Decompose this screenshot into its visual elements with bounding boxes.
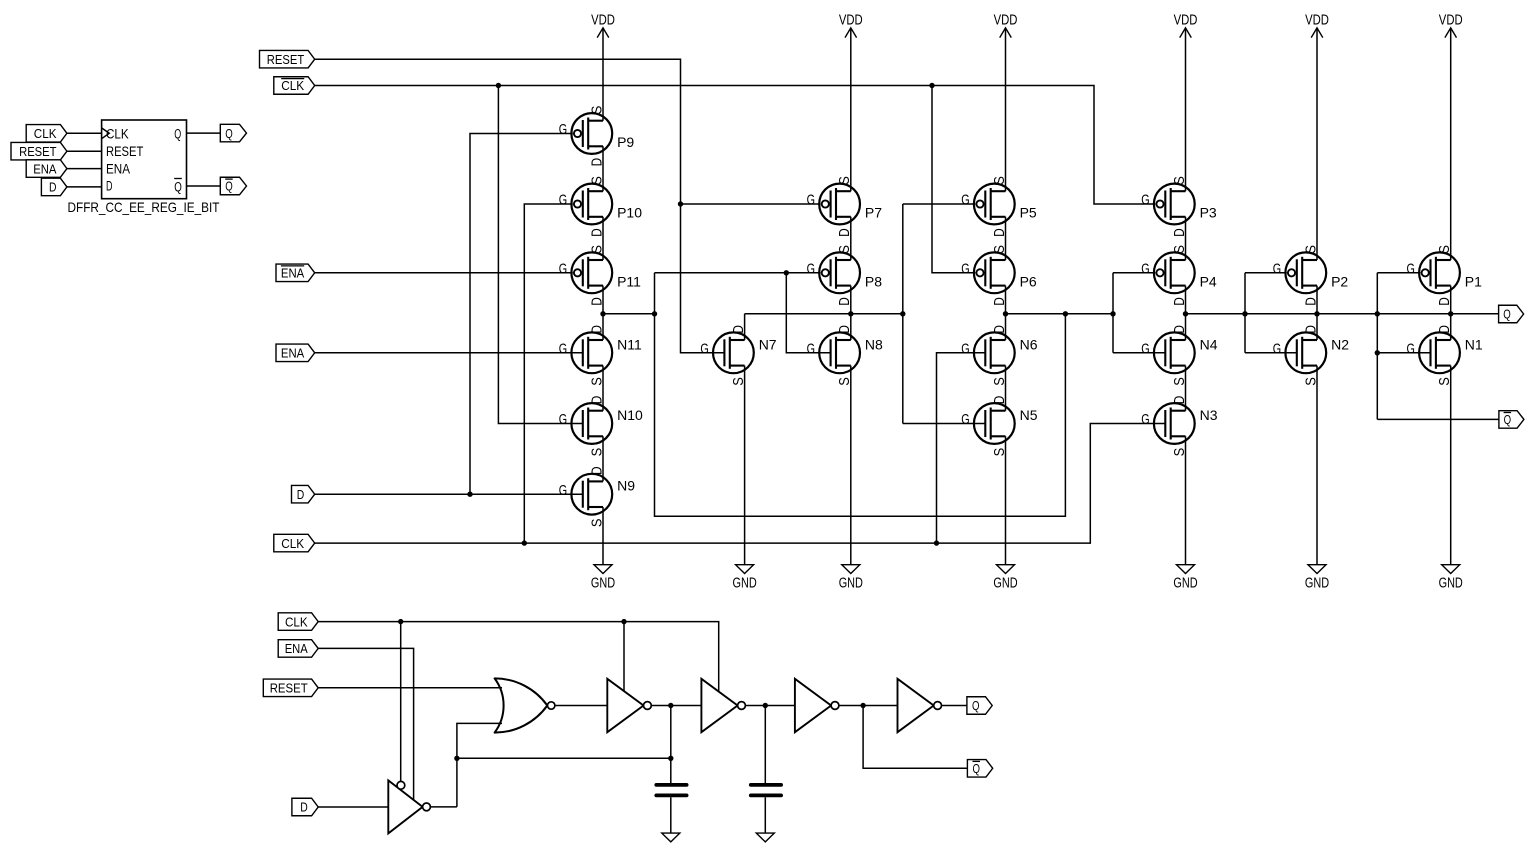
clocked inverter U5 [701,679,745,732]
wire VDD-GND column 6 (P2 N2) [1316,28,1318,565]
block output flag Q_bar [220,177,246,195]
svg-text:D: D [589,396,605,405]
ground symbol GND column 7 [1439,565,1463,592]
wire VDD-GND column 4 (P5 P6 N6 N5) [1005,28,1007,565]
svg-text:D: D [1172,396,1188,405]
input flag D [292,485,315,503]
transistor P8 [807,245,883,306]
svg-text:D: D [49,180,57,195]
junction CLK to P10 branch [522,540,527,545]
wire inverter1 to inverter2 [651,705,701,707]
svg-text:G: G [1141,341,1149,357]
wire ENA_bar to P11 gate [315,272,573,274]
junction tristate output to cap row [454,756,459,761]
svg-text:N9: N9 [617,478,635,494]
svg-text:G: G [961,412,969,428]
transistor P9 [559,106,635,167]
wire node1 master latch net [603,273,1165,516]
svg-text:G: G [1141,412,1149,428]
svg-text:D: D [1172,228,1188,237]
output flag Q_bar main [1499,411,1524,429]
svg-text:CLK: CLK [281,536,304,551]
ground symbol at C2 [756,833,774,842]
svg-text:S: S [837,377,853,386]
svg-text:Q: Q [174,126,181,141]
junction CLK_bar to N10 branch [496,83,501,88]
svg-text:P11: P11 [617,274,641,290]
svg-text:P7: P7 [865,205,882,221]
output flag Q bottom [967,697,992,715]
svg-text:S: S [1172,245,1188,254]
transistor N8 [807,325,883,386]
svg-text:D: D [1303,325,1319,334]
wire capacitor C1 connection [670,706,672,834]
svg-text:G: G [807,341,815,357]
svg-text:P1: P1 [1465,274,1482,290]
wire D net to N9 and P9 gates [315,134,583,495]
svg-text:P2: P2 [1331,274,1348,290]
svg-text:D: D [106,179,113,194]
svg-text:D: D [992,396,1008,405]
svg-text:Q: Q [225,179,233,194]
transistor P7 [807,176,883,237]
transistor P10 [559,176,642,237]
svg-text:G: G [559,483,567,499]
svg-text:P6: P6 [1020,274,1037,290]
svg-text:G: G [1407,341,1415,357]
wire ENA to N11 gate [315,352,583,354]
junction inverter2 output to capacitor C2 [763,703,768,708]
svg-text:G: G [700,341,708,357]
wire VDD-GND column 3 (P7 P8 N8) [850,28,852,565]
svg-text:D: D [837,325,853,334]
junction output at P2 N2 gates [1242,311,1247,316]
ground symbol GND column 3 [839,565,863,592]
junction CLK to N6 branch [934,540,939,545]
junction node1 at P4 N4 gates [1110,311,1115,316]
transistor P2 [1273,245,1349,306]
svg-text:G: G [1141,261,1149,277]
svg-text:DFFR_CC_EE_REG_IE_BIT: DFFR_CC_EE_REG_IE_BIT [68,199,220,215]
svg-text:Q: Q [1504,412,1512,427]
svg-text:G: G [559,412,567,428]
junction node1 at column 1 output [600,311,605,316]
svg-text:P10: P10 [617,205,642,221]
block symbol U1 DFFR_CC_EE_REG_IE_BIT [102,120,187,199]
wire block RESET pin [67,150,102,152]
wire VDD-GND column 5 (P3 P4 N4 N3) [1185,28,1187,565]
svg-text:VDD: VDD [1305,12,1329,28]
transistor N10 [559,396,643,457]
svg-text:RESET: RESET [267,52,304,67]
svg-text:D: D [992,228,1008,237]
wire inverter3 to inverter4 [839,705,898,707]
ground symbol GND column 2 [733,565,757,592]
svg-text:Q: Q [225,126,233,141]
transistor N4 [1141,325,1217,386]
svg-text:RESET: RESET [19,144,56,159]
svg-text:S: S [1172,377,1188,386]
transistor N6 [961,325,1037,386]
wire inverter2 to inverter3 [745,705,795,707]
svg-text:G: G [559,261,567,277]
svg-text:N8: N8 [865,336,883,352]
junction node2 at column 3 output [848,311,853,316]
block input flag RESET [11,142,67,160]
block output flag Q [220,124,246,142]
svg-text:D: D [1172,325,1188,334]
svg-text:G: G [961,341,969,357]
svg-text:ENA: ENA [106,161,130,176]
svg-text:S: S [837,245,853,254]
junction inverter1 output to capacitor C1 [668,703,673,708]
svg-text:Q: Q [1503,307,1511,322]
svg-text:S: S [589,245,605,254]
wire ENA net bottom [318,648,413,800]
ground symbol GND column 6 [1305,565,1329,592]
clocked inverter U4 [607,679,651,732]
svg-text:ENA: ENA [281,346,305,361]
svg-text:GND: GND [1173,576,1197,592]
svg-text:G: G [961,193,969,209]
svg-text:S: S [731,377,747,386]
svg-text:P5: P5 [1020,205,1037,221]
svg-text:S: S [589,448,605,457]
svg-text:P8: P8 [865,274,882,290]
svg-text:ENA: ENA [33,161,57,176]
inverter U7 [898,679,942,732]
svg-text:D: D [992,297,1008,306]
junction node1 at column 4 output [1003,311,1008,316]
svg-text:D: D [837,297,853,306]
transistor N7 [700,325,776,386]
svg-text:P9: P9 [617,134,634,150]
transistor P1 [1407,245,1483,306]
ground symbol GND column 4 [993,565,1017,592]
svg-text:G: G [1407,261,1415,277]
svg-text:N7: N7 [759,336,777,352]
junction node1 branch vertical [652,311,657,316]
junction node1 feedback riser [1063,311,1068,316]
transistor P3 [1141,176,1217,237]
svg-text:D: D [297,487,305,502]
junction node2 branch to P5 N5 [900,311,905,316]
input flag ENA bottom [278,640,318,658]
svg-text:S: S [992,176,1008,185]
svg-text:S: S [1303,245,1319,254]
svg-text:D: D [300,800,308,815]
svg-text:P3: P3 [1200,205,1217,221]
svg-text:S: S [992,448,1008,457]
block input flag ENA [26,160,67,178]
svg-text:GND: GND [839,576,863,592]
input flag ENA_bar [276,264,315,282]
junction Qbar riser at N1 gate [1375,350,1380,355]
svg-text:VDD: VDD [1439,12,1463,28]
svg-text:VDD: VDD [994,12,1018,28]
wire CLK net to P10 N6 N3 gates [315,204,1166,543]
ground symbol GND column 5 [1173,565,1197,592]
svg-text:D: D [837,228,853,237]
svg-text:N3: N3 [1200,407,1218,423]
svg-text:D: D [589,297,605,306]
junction CLK to inverter1 clock [621,619,626,624]
transistor P11 [559,245,641,306]
svg-text:N5: N5 [1020,407,1038,423]
svg-text:D: D [589,325,605,334]
svg-text:D: D [589,466,605,475]
input flag RESET bottom [263,679,318,697]
wire VDD-GND column 7 (P1 N1) [1450,28,1452,565]
svg-text:G: G [961,261,969,277]
svg-text:D: D [589,158,605,167]
input flag ENA [276,344,315,362]
junction output at P1 N1 gates riser [1375,311,1380,316]
junction output at column 6 [1314,311,1319,316]
svg-text:N10: N10 [617,407,643,423]
svg-text:Q: Q [973,761,981,776]
svg-text:S: S [1303,377,1319,386]
svg-text:CLK: CLK [34,126,57,141]
wire Q_bar to flag [1377,418,1499,420]
svg-text:G: G [559,122,567,138]
power flag VDD column 6 [1305,12,1329,37]
junction CLK_bar to P6 branch [929,83,934,88]
transistor N11 [559,325,642,386]
wire block Q_bar pin [187,185,221,187]
svg-text:G: G [1273,261,1281,277]
svg-text:S: S [837,176,853,185]
svg-text:S: S [589,106,605,115]
wire CLK_bar net to N10 P6 P3 gates [315,86,1156,424]
wire tristate output to NOR and cap row [430,723,670,807]
svg-text:GND: GND [591,576,615,592]
svg-text:D: D [1303,297,1319,306]
svg-text:CLK: CLK [285,614,308,629]
block input flag D [41,178,67,196]
svg-text:VDD: VDD [1174,12,1198,28]
svg-text:S: S [992,377,1008,386]
svg-text:Q: Q [174,179,182,194]
svg-text:G: G [559,341,567,357]
svg-text:S: S [589,176,605,185]
input flag RESET [260,50,315,67]
svg-text:GND: GND [1305,576,1329,592]
svg-text:S: S [1172,176,1188,185]
input flag D bottom [292,798,318,816]
junction output at column 5 [1183,311,1188,316]
junction CLK to D-inverter clock [398,619,403,624]
svg-text:Q: Q [972,698,980,713]
junction D net branch to P9 [467,492,472,497]
svg-text:D: D [589,228,605,237]
svg-text:GND: GND [1439,576,1463,592]
svg-text:RESET: RESET [106,144,143,159]
tristate inverter U2 with clock bubble [388,780,430,833]
wire node2 net N7 drain to P5 N5 gates [745,204,986,424]
wire capacitor C2 connection [764,706,766,834]
svg-text:G: G [1141,193,1149,209]
svg-text:VDD: VDD [591,12,615,28]
wire inverter4 to Q flag [942,705,967,707]
junction node1 at P8 N8 gates [784,270,789,275]
block input flag CLK [26,125,67,143]
transistor P5 [961,176,1037,237]
power flag VDD column 1 [591,12,615,37]
svg-text:S: S [1437,245,1453,254]
svg-text:G: G [807,193,815,209]
wire CLK net bottom [318,622,719,782]
power flag VDD column 3 [839,12,863,37]
capacitor C1 [656,785,686,796]
wire D to tristate inverter [318,806,388,808]
capacitor C2 [751,785,781,796]
svg-text:D: D [1437,297,1453,306]
wire block ENA pin [67,168,102,170]
transistor N5 [961,396,1037,457]
wire RESET to NOR input [318,687,502,689]
input flag CLK [274,534,315,552]
wire NOR output to inverter1 [555,705,607,707]
transistor P6 [961,245,1037,306]
svg-text:CLK: CLK [106,126,129,141]
svg-text:G: G [559,193,567,209]
wire block D pin [67,186,102,188]
svg-text:P4: P4 [1200,274,1217,290]
wire block CLK pin [67,132,102,134]
input flag CLK_bar [274,77,315,95]
ground symbol at C1 [662,833,680,842]
NOR gate U3 [495,678,555,732]
wire block Q pin [187,132,221,134]
wire column 2 N7 drain and source [744,314,746,565]
output flag Q main [1499,305,1524,323]
output flag Q_bar bottom [967,760,992,778]
svg-text:VDD: VDD [839,12,863,28]
power flag VDD column 4 [994,12,1018,37]
svg-text:D: D [1437,325,1453,334]
svg-text:ENA: ENA [285,641,308,656]
transistor N9 [559,466,635,527]
svg-text:N2: N2 [1331,336,1349,352]
svg-text:S: S [1437,377,1453,386]
input flag CLK bottom [278,613,318,631]
junction inverter3 output to Qbar [860,703,865,708]
transistor N1 [1407,325,1483,386]
svg-text:S: S [992,245,1008,254]
svg-text:RESET: RESET [270,681,308,696]
svg-text:S: S [1172,448,1188,457]
svg-text:GND: GND [993,576,1017,592]
svg-text:G: G [807,261,815,277]
transistor N3 [1141,396,1217,457]
wire VDD-GND column 1 (P9 P10 P11 N11 N10 N9) [602,28,604,565]
svg-text:N1: N1 [1465,336,1483,352]
wire output node to Q flag [1186,273,1499,420]
svg-text:GND: GND [733,576,757,592]
svg-text:N6: N6 [1020,336,1038,352]
power flag VDD column 7 [1439,12,1463,37]
ground symbol GND column 1 [591,565,615,592]
svg-text:D: D [731,325,747,334]
svg-text:N11: N11 [617,336,642,352]
svg-text:G: G [1273,341,1281,357]
svg-text:S: S [589,377,605,386]
transistor N2 [1273,325,1349,386]
svg-text:D: D [1172,297,1188,306]
svg-text:N4: N4 [1200,336,1218,352]
svg-text:ENA: ENA [281,266,305,281]
junction output at column 7 Q node [1448,311,1453,316]
wire RESET net to P7 and N7 gates [315,59,821,353]
svg-text:CLK: CLK [281,78,304,93]
wire Q_bar branch bottom [863,706,967,769]
svg-text:D: D [992,325,1008,334]
power flag VDD column 5 [1174,12,1198,37]
inverter U6 [795,679,839,732]
junction cap row at C1 [668,756,673,761]
svg-text:S: S [589,519,605,528]
transistor P4 [1141,245,1217,306]
junction RESET at P7 gate [678,201,683,206]
